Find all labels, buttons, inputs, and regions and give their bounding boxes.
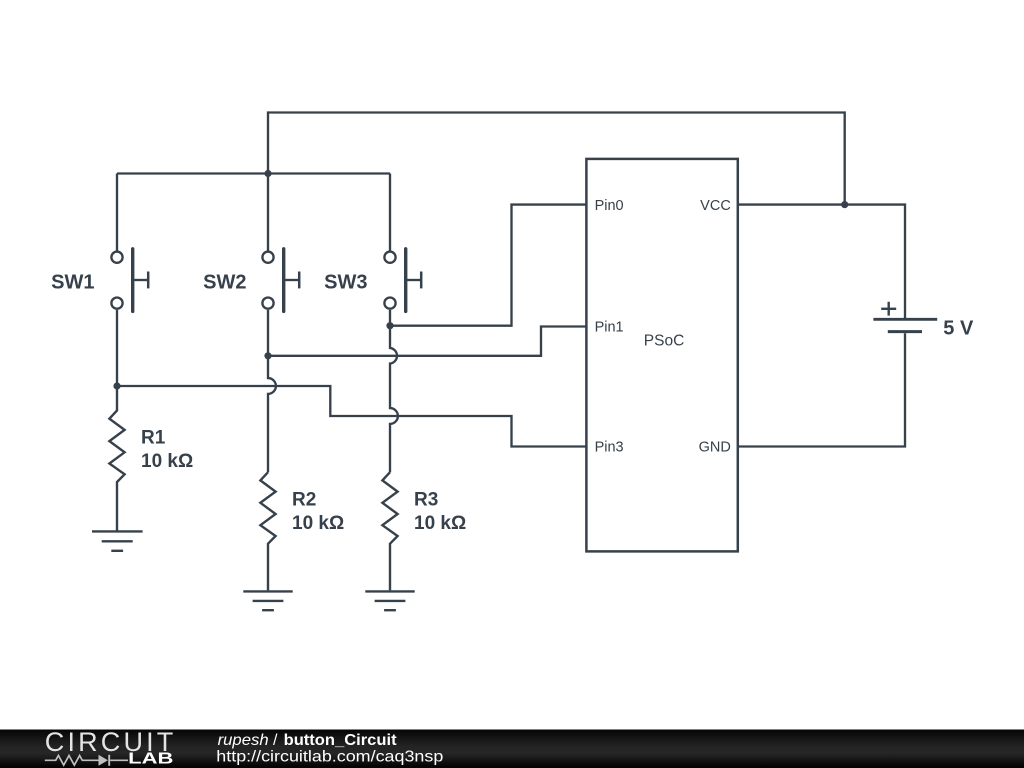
wire: VCC top rail from switch bus to battery column: [268, 113, 845, 205]
wire: SW2 bottom lead to node: [267, 310, 269, 356]
svg-text:10 kΩ: 10 kΩ: [292, 513, 344, 534]
svg-text:R3: R3: [414, 489, 438, 510]
svg-text:R1: R1: [141, 428, 166, 449]
svg-text:10 kΩ: 10 kΩ: [414, 513, 466, 534]
ground: below R1: [92, 531, 143, 550]
wire: battery negative lead down and GND net back to PSoC: [738, 333, 905, 446]
svg-text:PSoC: PSoC: [644, 333, 685, 350]
pushbutton SW3: [384, 249, 421, 312]
svg-text:LAB: LAB: [128, 750, 173, 767]
svg-text:R2: R2: [292, 489, 316, 510]
footer bar: [0, 730, 1024, 768]
node: SW2 / R2 / Pin1 junction: [264, 352, 271, 359]
svg-text:rupesh: rupesh: [218, 732, 269, 749]
wire: SW2 top lead: [267, 174, 269, 251]
battery V1: plus sign: [881, 302, 896, 316]
wire: switch top bus: [117, 172, 390, 174]
wire: SW3 top lead: [389, 174, 391, 251]
resistor R2: [260, 472, 275, 590]
wire: SW1 top lead: [116, 174, 118, 251]
battery V1: plates: [873, 319, 937, 331]
node: SW3 / R3 / Pin0 junction: [386, 322, 393, 329]
wire: SW1 bottom lead to node: [116, 310, 118, 386]
node: SW1 / R1 / Pin3 junction: [113, 382, 120, 389]
wire: R3 top lead with hops over Pin1 and Pin3 nets: [390, 326, 398, 473]
pushbutton SW2: [262, 249, 299, 312]
svg-text:/: /: [273, 732, 278, 749]
wire: R2 top lead with hop over Pin3 net: [268, 356, 276, 472]
CircuitLab logo: resistor-diode squiggle: [45, 755, 128, 766]
resistor R1: [109, 386, 124, 531]
svg-text:Pin0: Pin0: [595, 198, 624, 214]
ground: below R2: [243, 591, 292, 610]
svg-text:SW3: SW3: [324, 272, 367, 294]
svg-text:Pin3: Pin3: [595, 440, 624, 456]
svg-text:Pin1: Pin1: [595, 320, 624, 336]
svg-text:GND: GND: [699, 440, 731, 456]
wire: SW3 bottom lead to node: [389, 310, 391, 326]
node: junction on top bus: [264, 170, 271, 177]
node: VCC junction at top rail: [841, 201, 848, 208]
svg-text:10 kΩ: 10 kΩ: [141, 451, 193, 472]
svg-text:button_Circuit: button_Circuit: [284, 732, 398, 749]
ground: below R3: [365, 591, 414, 610]
svg-text:SW2: SW2: [203, 272, 246, 294]
svg-text:http://circuitlab.com/caq3nsp: http://circuitlab.com/caq3nsp: [216, 749, 443, 766]
IC U1: PSoC box: [586, 159, 737, 552]
footer: author / title: [216, 732, 443, 766]
wire: Pin3 net from SW1 junction to PSoC Pin3: [117, 386, 586, 447]
pushbutton SW1: [111, 249, 148, 312]
wire: Pin1 net from SW2 junction to PSoC Pin1: [268, 327, 586, 356]
resistor R3: [382, 472, 397, 590]
svg-text:5 V: 5 V: [943, 317, 974, 339]
wire: VCC net from PSoC to battery: [738, 205, 905, 318]
wire: Pin0 net from SW3 junction to PSoC Pin0: [390, 205, 586, 326]
svg-text:SW1: SW1: [51, 272, 94, 294]
svg-text:VCC: VCC: [700, 198, 731, 214]
